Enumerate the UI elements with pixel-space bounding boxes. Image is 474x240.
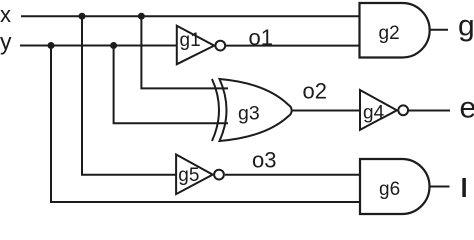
svg-text:g6: g6 [379, 179, 400, 200]
wire vertical from x to g5 input [82, 16, 177, 175]
wire o3 from g5 bubble to g6 upper input [225, 174, 360, 176]
AND gate g6 [360, 159, 429, 214]
junction dot y2 [110, 42, 117, 49]
wire x horizontal [21, 15, 360, 17]
AND gate g2 [360, 3, 430, 58]
NOT gate g1 [177, 26, 225, 64]
junction dot y1 [48, 42, 55, 49]
wire g4 output [409, 110, 450, 112]
svg-text:g1: g1 [180, 30, 201, 51]
junction dot x1 [79, 13, 86, 20]
NOT gate g5 [176, 155, 224, 195]
wire o2 from g3 output to g4 input [292, 110, 361, 112]
wire g2 output [430, 29, 448, 31]
svg-text:x: x [0, 2, 11, 27]
svg-text:y: y [0, 29, 12, 55]
svg-text:g: g [458, 10, 474, 43]
svg-text:e: e [460, 92, 474, 125]
svg-text:g5: g5 [178, 165, 199, 186]
XOR gate g3 [212, 79, 292, 141]
wire vertical from y to g6 lower input [51, 46, 360, 203]
svg-text:o2: o2 [303, 79, 327, 104]
svg-text:o1: o1 [249, 25, 273, 50]
NOT gate g4 [360, 90, 408, 130]
wire vertical from y to g3 lower input [114, 46, 228, 124]
svg-text:g3: g3 [238, 103, 260, 125]
wire g6 output [430, 186, 450, 188]
junction dot x2 [138, 13, 145, 20]
svg-text:g4: g4 [363, 103, 385, 124]
svg-text:g2: g2 [379, 23, 400, 44]
wire o1 from g1 bubble to g2 lower input [226, 45, 361, 47]
svg-text:l: l [461, 173, 468, 203]
wire vertical from x to g3 upper input [141, 16, 228, 88]
wire y horizontal [20, 45, 178, 47]
svg-text:o3: o3 [252, 148, 276, 173]
